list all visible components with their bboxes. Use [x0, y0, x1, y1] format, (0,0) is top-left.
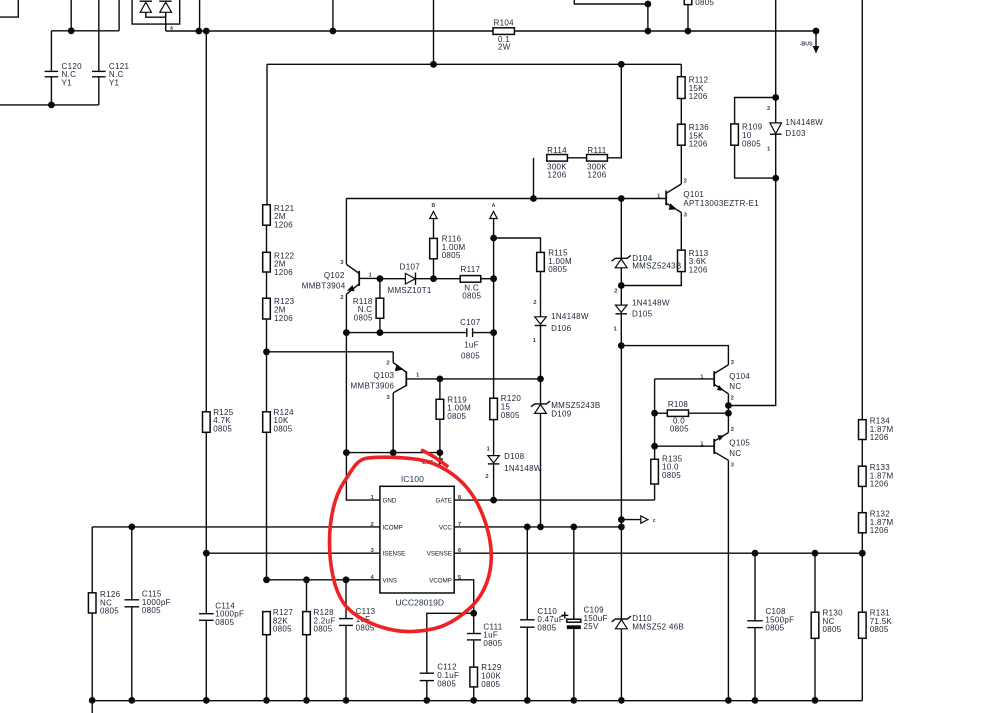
- wire R117 right: [481, 278, 494, 280]
- svg-text:0805: 0805: [447, 412, 466, 421]
- svg-text:1206: 1206: [689, 140, 708, 149]
- junction bottom R130: [812, 697, 819, 704]
- op-amp IC100 UCC28019D: [380, 486, 454, 593]
- junction R119 top: [437, 376, 444, 383]
- resistor R122: [263, 252, 271, 272]
- wire R118 bottom: [379, 318, 381, 332]
- transistor Q103: [393, 352, 440, 453]
- wire VCC end down to D110: [620, 527, 622, 619]
- junction A node: [490, 235, 497, 242]
- svg-text:APT13003EZTR-E1: APT13003EZTR-E1: [683, 199, 759, 208]
- resistor R134: [859, 420, 867, 440]
- junction R132-R131 node: [859, 550, 866, 557]
- wire VCOMP out: [454, 580, 474, 614]
- wire VCC rail: [454, 526, 621, 528]
- svg-text:D110: D110: [632, 614, 652, 623]
- junction R108 right: [725, 410, 732, 417]
- svg-text:VCC: VCC: [439, 524, 453, 531]
- capacitor C109 electrolytic: [567, 527, 581, 701]
- wire VSENSE rail: [454, 552, 862, 554]
- wire x206 rail upper: [205, 31, 207, 412]
- wire C107 left: [346, 332, 466, 334]
- svg-text:-BUS: -BUS: [800, 41, 813, 47]
- junction bottom C114: [203, 697, 210, 704]
- wire left rail down: [91, 527, 93, 593]
- wire vertical from top edge to node at y31: [70, 0, 72, 31]
- wire to Q104 collector: [621, 346, 728, 365]
- junction bottom x92: [89, 697, 96, 704]
- junction Q103 pin3 bottom: [390, 449, 397, 456]
- junction D104 tap: [618, 195, 625, 202]
- resistor R121: [263, 205, 271, 225]
- wire VINS rail: [267, 579, 380, 581]
- label C109 plus: [561, 612, 568, 619]
- resistor R126: [88, 593, 96, 613]
- wire y379 rail: [440, 378, 541, 380]
- svg-text:0805: 0805: [870, 625, 889, 634]
- wire R119 top leg: [439, 379, 441, 399]
- svg-text:UCC28019D: UCC28019D: [395, 598, 444, 608]
- resistor R133: [859, 466, 867, 486]
- svg-text:0805: 0805: [481, 680, 500, 689]
- svg-text:1206: 1206: [870, 480, 889, 489]
- capacitor C108: [747, 553, 762, 701]
- resistor R132: [859, 513, 867, 533]
- svg-text:1206: 1206: [689, 266, 708, 275]
- wire x621 diode chain: [620, 199, 622, 346]
- wire R110 to bus: [687, 5, 689, 31]
- diode bridge D-right: [159, 1, 171, 31]
- wire -BUS rail y31: [166, 30, 816, 32]
- resistor R109: [735, 98, 776, 124]
- svg-text:0805: 0805: [483, 639, 502, 648]
- junction D104-D105: [618, 282, 625, 289]
- svg-text:0805: 0805: [462, 292, 481, 301]
- wire R121-R122: [266, 225, 268, 252]
- svg-text:C112: C112: [437, 662, 457, 671]
- resistor R113: [678, 250, 686, 272]
- svg-text:MMBT3904: MMBT3904: [302, 281, 346, 290]
- svg-text:1206: 1206: [274, 314, 293, 323]
- diode D105: [615, 305, 627, 314]
- junction y352: [263, 348, 270, 355]
- svg-text:D105: D105: [632, 310, 653, 319]
- junction VCOMP node: [470, 610, 477, 617]
- diode D106: [535, 317, 547, 379]
- junction D109 bottom: [537, 524, 544, 531]
- junction R108 left: [651, 410, 658, 417]
- resistor R118: [376, 298, 384, 318]
- transistor Q104: [655, 365, 729, 406]
- wire R118 top: [379, 279, 381, 299]
- wire R111 up to line y64: [607, 64, 621, 158]
- svg-text:1N4148W: 1N4148W: [504, 464, 542, 473]
- junction top-left bus: [68, 27, 75, 34]
- wire from top edge x200: [199, 0, 201, 31]
- svg-text:D109: D109: [551, 409, 572, 418]
- junction bottom C113: [343, 697, 350, 704]
- wire R114-R111: [567, 157, 586, 159]
- junction bottom R127: [263, 697, 270, 704]
- svg-text:R108: R108: [668, 400, 689, 409]
- junction Q102 emitter node: [343, 329, 350, 336]
- wire lineB to R112: [680, 64, 682, 76]
- svg-text:NC: NC: [729, 382, 741, 391]
- junction x346 y453: [343, 449, 350, 456]
- svg-text:R111: R111: [587, 146, 606, 155]
- svg-text:VINS: VINS: [383, 578, 397, 585]
- svg-text:0805: 0805: [461, 351, 480, 360]
- annotation red circle around IC100: [330, 457, 492, 631]
- svg-text:VCOMP: VCOMP: [429, 578, 452, 585]
- wire R126 bottom / off page: [91, 613, 93, 713]
- wire bottom link C120 C121: [0, 104, 99, 106]
- wire small link: [727, 406, 729, 414]
- junction R128 top: [303, 576, 310, 583]
- svg-text:0805: 0805: [213, 424, 232, 433]
- junction R117 node: [490, 275, 497, 282]
- wire R128 bottom: [306, 635, 308, 701]
- capacitor C120: [45, 31, 59, 105]
- wire R115-D106: [540, 272, 542, 317]
- junction C107 right: [490, 329, 497, 336]
- resistor R115: [537, 252, 545, 271]
- svg-text:0.1uF: 0.1uF: [437, 671, 459, 680]
- svg-text:NC: NC: [729, 449, 741, 458]
- svg-text:0805: 0805: [548, 265, 567, 274]
- junction x199: [196, 28, 203, 35]
- transistor Q102: [346, 199, 380, 333]
- junction C115 top: [128, 524, 135, 531]
- capacitor C115: [125, 527, 140, 701]
- svg-text:0805: 0805: [442, 251, 461, 260]
- svg-text:C107: C107: [460, 318, 481, 327]
- power -BUS arrow lower: [437, 453, 443, 466]
- svg-text:0805: 0805: [695, 0, 714, 7]
- wire y352 Q103 feed: [267, 351, 394, 353]
- junction Q105 base: [651, 443, 658, 450]
- junction x621 y64: [618, 61, 625, 68]
- wire ICOMP rail: [92, 526, 380, 528]
- resistor R136: [678, 124, 686, 145]
- svg-text:0805: 0805: [823, 625, 842, 634]
- svg-text:0805: 0805: [142, 606, 161, 615]
- junction ISENSE tap: [203, 550, 210, 557]
- zener diode D109: [531, 379, 550, 527]
- junction C120 bottom: [48, 102, 55, 109]
- net arrow A: [490, 203, 497, 238]
- svg-text:B: B: [432, 203, 436, 209]
- junction Q102 base node: [377, 275, 384, 282]
- wire R129 bottom: [473, 687, 475, 701]
- wire R114 left leg: [533, 158, 535, 199]
- svg-text:0805: 0805: [537, 623, 556, 632]
- wire C120/C121 top link: [51, 30, 119, 32]
- wire A to R115: [494, 238, 541, 252]
- svg-text:D108: D108: [504, 452, 525, 461]
- svg-text:1206: 1206: [548, 171, 567, 180]
- junction x621 y346: [618, 342, 625, 349]
- diode D103: [770, 123, 782, 134]
- wire R113 to D104 node: [621, 272, 681, 286]
- wire x206 rail mid: [205, 432, 207, 613]
- svg-text:IC100: IC100: [401, 474, 424, 484]
- junction D107-R116: [430, 275, 437, 282]
- wire R109 bottom leg: [735, 145, 776, 178]
- svg-text:0805: 0805: [501, 411, 520, 420]
- diode D108: [488, 456, 499, 501]
- resistor R117: [434, 278, 461, 280]
- resistor R110 partial top: [684, 0, 692, 5]
- svg-text:0805: 0805: [100, 607, 119, 616]
- net arrow B: [430, 203, 437, 238]
- resistor R119: [436, 399, 444, 419]
- svg-text:c: c: [653, 518, 656, 524]
- svg-text:D106: D106: [551, 324, 572, 333]
- junction bottom C110: [524, 697, 531, 704]
- zener diode D110: [612, 616, 631, 701]
- resistor R131: [859, 612, 867, 638]
- resistor R130: [814, 553, 816, 612]
- wire Q101 base rail: [346, 198, 666, 200]
- svg-text:0805: 0805: [273, 625, 292, 634]
- svg-text:MMSZ5243B: MMSZ5243B: [632, 261, 681, 270]
- junction bottom C108: [752, 697, 759, 704]
- junction VCC end: [618, 524, 625, 531]
- junction R114 tap: [530, 195, 537, 202]
- svg-text:Y1: Y1: [62, 78, 73, 87]
- svg-text:ICOMP: ICOMP: [383, 524, 403, 531]
- junction R130 top: [812, 550, 819, 557]
- wire R132 to VSENSE/R131: [861, 533, 863, 612]
- diode D107: [380, 273, 434, 285]
- diode bridge D-left: [140, 1, 166, 17]
- power -BUS arrow: [813, 31, 820, 54]
- svg-text:MMSZ52 46B: MMSZ52 46B: [632, 623, 684, 632]
- zener diode D104: [612, 255, 631, 267]
- junction -BUS tap: [437, 449, 444, 456]
- resistor R123: [263, 298, 271, 319]
- resistor R108: [667, 410, 688, 416]
- svg-text:0805: 0805: [765, 624, 784, 633]
- wire x776 rail: [728, 0, 775, 406]
- wire top-left corner stub: [0, 0, 18, 17]
- wire top stub y4: [574, 0, 648, 4]
- resistor R125: [203, 412, 211, 433]
- junction C109 top: [570, 524, 577, 531]
- junction Q104 emitter: [725, 402, 732, 409]
- wire x494 down: [493, 238, 495, 398]
- svg-text:Y1: Y1: [109, 78, 120, 87]
- wire down to bus x648: [647, 4, 649, 31]
- svg-text:GND: GND: [383, 498, 397, 505]
- svg-text:1206: 1206: [274, 268, 293, 277]
- svg-text:1uF: 1uF: [464, 340, 479, 349]
- svg-text:MMSZ10T1: MMSZ10T1: [388, 286, 432, 295]
- capacitor C112: [420, 673, 434, 701]
- svg-text:0805: 0805: [742, 139, 761, 148]
- svg-text:0805: 0805: [670, 425, 689, 434]
- wire ISENSE rail: [206, 552, 380, 554]
- svg-text:Q103: Q103: [374, 371, 395, 380]
- wire from top edge x433: [433, 0, 435, 64]
- resistor R127: [263, 612, 271, 635]
- junction x433 y64: [430, 61, 437, 68]
- resistor R129: [470, 667, 478, 687]
- net arrow c: [621, 516, 648, 523]
- wire bottom rail: [92, 700, 862, 702]
- resistor R124: [263, 412, 271, 433]
- svg-text:1N4148W: 1N4148W: [551, 312, 589, 321]
- wire x346 down: [345, 333, 347, 453]
- wire R134-R133: [861, 440, 863, 467]
- junction R109 bottom: [772, 175, 779, 182]
- wire R130 bottom: [814, 638, 816, 700]
- svg-text:1N4148W: 1N4148W: [632, 298, 670, 307]
- resistor R114: [547, 155, 568, 162]
- transistor Q105: [655, 413, 729, 701]
- wire R131 bottom: [861, 638, 863, 700]
- resistor R104: [493, 28, 514, 35]
- svg-text:D107: D107: [400, 263, 421, 272]
- svg-text:D103: D103: [785, 129, 806, 138]
- svg-text:0805: 0805: [274, 424, 293, 433]
- junction x648: [645, 28, 652, 35]
- svg-text:A: A: [492, 203, 496, 209]
- transistor Q101: [666, 145, 681, 250]
- wire GATE rail: [454, 499, 654, 501]
- svg-text:VSENSE: VSENSE: [427, 551, 452, 558]
- wire R119 bottom leg: [439, 419, 441, 452]
- junction bottom R128: [303, 697, 310, 704]
- junction GATE-D108: [490, 497, 497, 504]
- svg-text:0805: 0805: [662, 471, 681, 480]
- capacitor C114: [199, 614, 214, 701]
- junction C110 top: [524, 524, 531, 531]
- junction R118 bottom: [377, 329, 384, 336]
- capacitor C107: [467, 328, 494, 337]
- svg-text:0805: 0805: [314, 625, 333, 634]
- capacitor C121: [92, 0, 106, 105]
- wire to C112: [427, 613, 474, 673]
- svg-text:1206: 1206: [870, 526, 889, 535]
- svg-text:0805: 0805: [215, 618, 234, 627]
- junction y4: [645, 1, 652, 8]
- junction C108 top: [752, 550, 759, 557]
- svg-text:Q105: Q105: [729, 439, 750, 448]
- junction -BUS arrow: [813, 28, 820, 35]
- svg-text:1206: 1206: [274, 220, 293, 229]
- svg-text:2W: 2W: [498, 43, 511, 52]
- wire up to top edge at x119: [118, 0, 120, 31]
- bridge rectifier box: [132, 0, 180, 24]
- wire R120 to D108: [493, 420, 495, 456]
- resistor R112: [678, 77, 686, 99]
- junction C113 top: [343, 576, 350, 583]
- wire x621 mid rail: [620, 346, 622, 527]
- svg-text:0805: 0805: [437, 680, 456, 689]
- junction VINS x266: [263, 576, 270, 583]
- junction x206: [203, 28, 210, 35]
- junction x688: [685, 28, 692, 35]
- svg-text:Q102: Q102: [324, 271, 345, 280]
- wire down to R121: [266, 64, 268, 205]
- svg-text:1206: 1206: [689, 92, 708, 101]
- svg-text:0805: 0805: [354, 314, 373, 323]
- junction bottom Q105: [725, 697, 732, 704]
- wire R133-R132: [861, 486, 863, 512]
- wire R108 leads: [655, 412, 668, 414]
- svg-text:1206: 1206: [870, 433, 889, 442]
- resistor R128: [306, 580, 308, 612]
- svg-text:ISENSE: ISENSE: [383, 551, 406, 558]
- svg-text:MMBT3906: MMBT3906: [351, 381, 395, 390]
- wire R127 bottom: [266, 635, 268, 701]
- wire GATE up to R135: [654, 484, 656, 500]
- junction bottom R129: [470, 697, 477, 704]
- resistor R111: [587, 155, 608, 162]
- svg-text:1206: 1206: [588, 171, 607, 180]
- svg-text:R117: R117: [461, 265, 481, 274]
- wire x862 rail top: [861, 0, 863, 420]
- capacitor C110: [520, 527, 535, 701]
- wire to IC GND: [346, 453, 380, 501]
- resistor R116: [430, 238, 438, 258]
- svg-text:GATE: GATE: [436, 498, 452, 505]
- resistor R120: [490, 398, 498, 419]
- resistor R135: [651, 459, 659, 484]
- wire line y64: [267, 63, 681, 65]
- wire y453: [346, 452, 440, 454]
- wire R116 to node: [433, 259, 435, 279]
- wire x655 rail: [654, 379, 656, 459]
- junction Q103 line right end: [537, 376, 544, 383]
- wire from top edge x333: [332, 0, 334, 31]
- junction x333: [330, 28, 337, 35]
- junction bottom D110: [618, 697, 625, 704]
- svg-text:1N4148W: 1N4148W: [785, 118, 823, 127]
- junction bottom C115: [128, 697, 135, 704]
- junction bottom C109: [570, 697, 577, 704]
- junction R109 top: [772, 94, 779, 101]
- capacitor C113: [339, 580, 353, 701]
- wire R123 down to VINS line: [266, 319, 268, 580]
- svg-text:Q104: Q104: [729, 372, 750, 381]
- wire R122-R123: [266, 272, 268, 298]
- svg-text:25V: 25V: [584, 622, 599, 631]
- capacitor C111: [467, 613, 481, 667]
- junction c arrow tap: [618, 516, 625, 523]
- svg-text:R104: R104: [494, 19, 515, 28]
- junction bottom C112: [423, 697, 430, 704]
- svg-text:R114: R114: [547, 146, 567, 155]
- wire R112-R136: [680, 99, 682, 125]
